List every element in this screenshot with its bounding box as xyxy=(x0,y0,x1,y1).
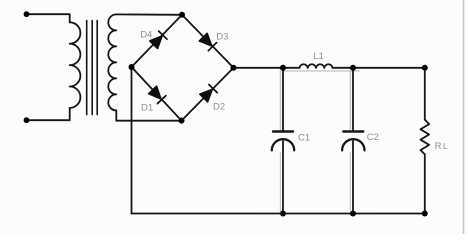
svg-text:D2: D2 xyxy=(213,101,225,112)
svg-text:D1: D1 xyxy=(141,103,153,114)
svg-text:C1: C1 xyxy=(298,132,310,143)
svg-text:L: L xyxy=(443,141,448,151)
svg-text:D4: D4 xyxy=(140,29,152,40)
svg-text:R: R xyxy=(435,141,442,152)
svg-text:C2: C2 xyxy=(367,132,379,143)
svg-text:L1: L1 xyxy=(313,51,324,62)
svg-text:D3: D3 xyxy=(216,32,228,43)
